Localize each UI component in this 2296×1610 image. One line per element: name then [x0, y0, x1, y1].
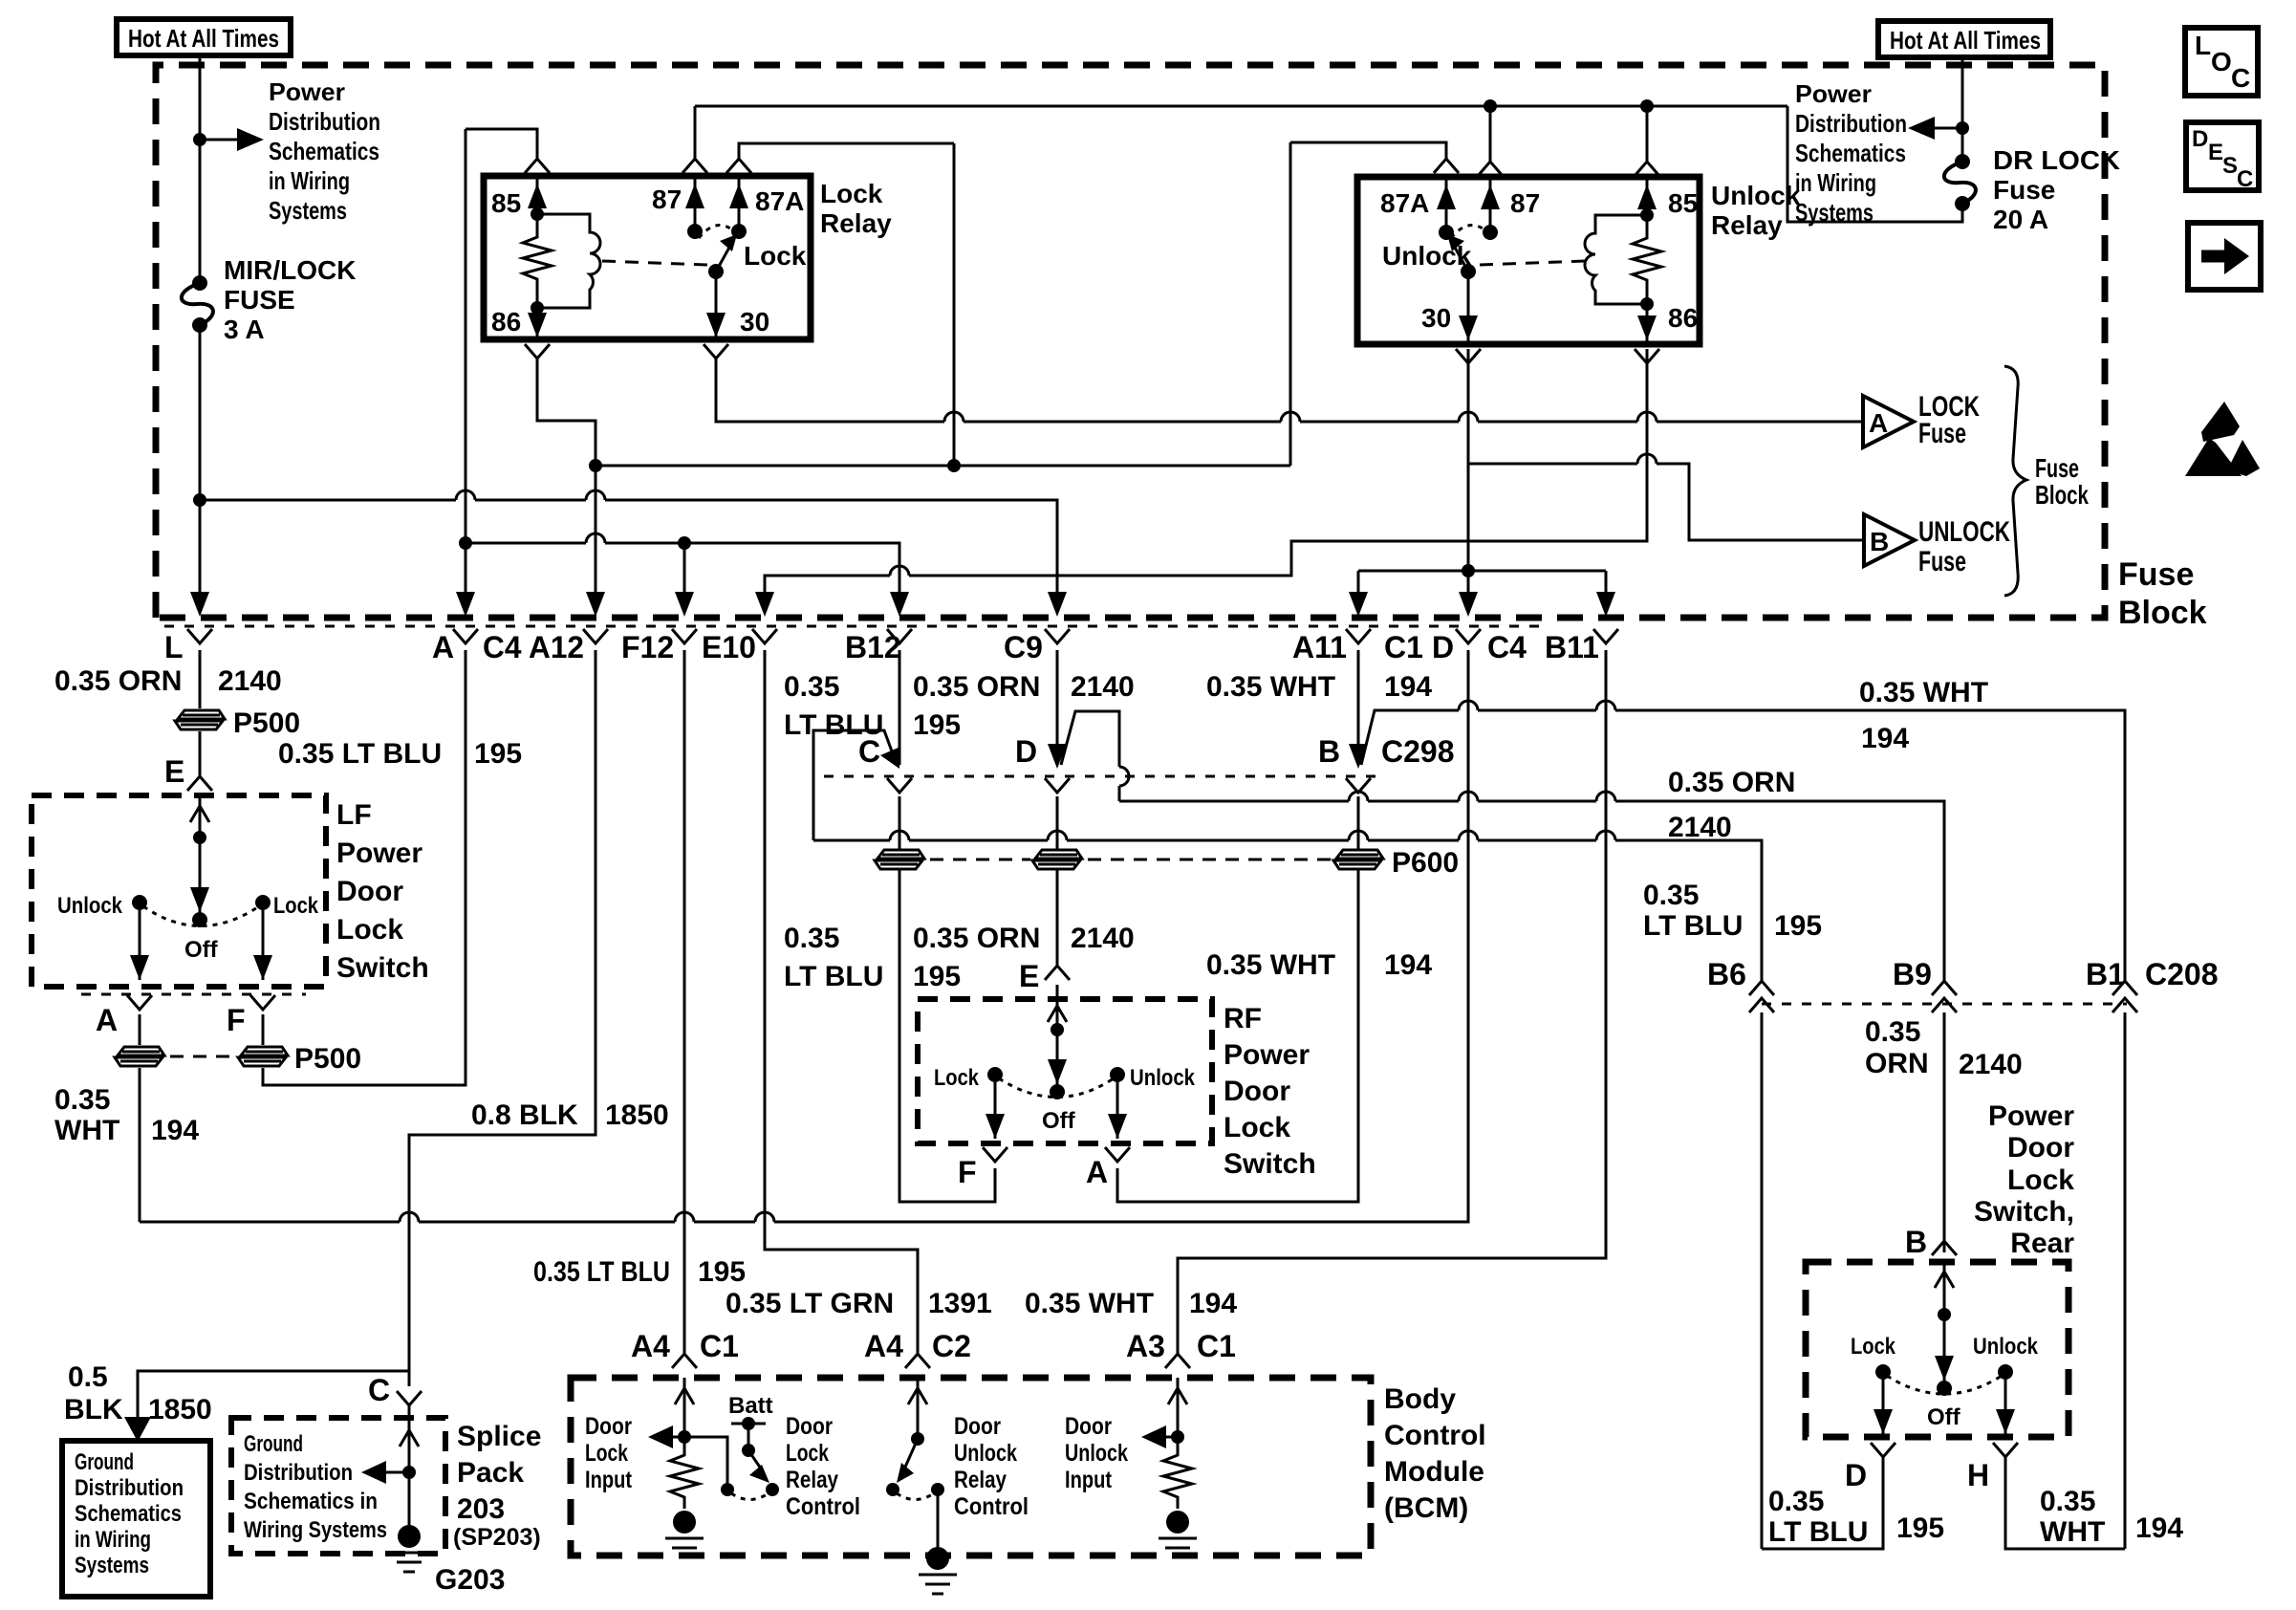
- wire: B into rear switch common: [1943, 1262, 1946, 1381]
- pin 86 lead (unlock): [1646, 304, 1649, 344]
- connector B1 chevrons: [2112, 981, 2137, 995]
- connector H chevron (rear): [1993, 1443, 2018, 1457]
- wire: MIR/LOCK fuse to connector L: [199, 325, 202, 602]
- fuse output triangle B (UNLOCK Fuse): [1864, 514, 1915, 566]
- wire: 87A tie bus y487: [596, 465, 1290, 468]
- wire: unlock control contact to ground: [937, 1490, 940, 1554]
- svg-text:H: H: [1967, 1458, 1989, 1492]
- wire: A4 C2 into BCM: [917, 1378, 920, 1439]
- svg-text:0.35 ORN: 0.35 ORN: [913, 671, 1040, 703]
- wire: ORN 2140 bus y523 fuse to C9 (hops 487,623): [200, 499, 456, 502]
- svg-text:Switch,: Switch,: [1974, 1196, 2074, 1228]
- svg-text:Door: Door: [336, 876, 403, 907]
- svg-text:0.35: 0.35: [784, 923, 839, 954]
- entry arrow (rear B): [1935, 1272, 1954, 1288]
- wire: unlock 87A over to riser 1350: [1290, 142, 1446, 159]
- svg-text:Relay: Relay: [1711, 210, 1783, 240]
- connector pin at x=623: [583, 629, 608, 643]
- unlock contact (LF): [132, 895, 147, 910]
- svg-text:195: 195: [1774, 910, 1822, 942]
- svg-text:C: C: [2237, 166, 2253, 192]
- svg-text:A11: A11: [1292, 630, 1347, 664]
- wire: A4 C1 into BCM: [683, 1378, 686, 1450]
- wire: B1 down to rear pin H run: [2124, 1012, 2127, 1549]
- svg-text:Control: Control: [786, 1493, 860, 1520]
- connector chevron A4 C2: [905, 1354, 930, 1368]
- connector B chevron (rear): [1932, 1241, 1957, 1255]
- svg-text:85: 85: [1668, 188, 1698, 218]
- svg-text:F: F: [958, 1155, 977, 1189]
- svg-text:Power: Power: [336, 838, 422, 869]
- contact 87A (unlock): [1439, 225, 1454, 240]
- svg-text:in Wiring: in Wiring: [1795, 168, 1876, 197]
- power label box: Hot At All Times (left): [117, 19, 291, 55]
- wire: unlock 30 down to 194 bus: [1467, 349, 1470, 571]
- lock contact (rear): [1875, 1364, 1891, 1380]
- svg-text:Power: Power: [1224, 1039, 1310, 1071]
- svg-text:O: O: [2211, 47, 2232, 76]
- svg-text:87A: 87A: [1380, 188, 1429, 218]
- wire: hot bus y111 to relay pins 87/85: [695, 105, 1787, 108]
- wire: C4 A12 ground lead to splice drop: [409, 650, 596, 1386]
- sidebar LOC box: [2185, 28, 2258, 96]
- connector B6 chevrons: [1749, 981, 1774, 995]
- svg-text:B1: B1: [2086, 957, 2125, 991]
- svg-text:(SP203): (SP203): [453, 1524, 541, 1551]
- wire: battery feed to DR LOCK fuse: [1961, 57, 1964, 160]
- wire: 195 down left side to RF pin F: [899, 869, 995, 1202]
- svg-text:F12: F12: [621, 630, 674, 664]
- contact 87 (lock): [687, 224, 703, 239]
- svg-text:C: C: [368, 1373, 390, 1407]
- svg-text:B: B: [1905, 1225, 1927, 1259]
- switch pivot (RF): [1050, 1084, 1065, 1099]
- svg-text:Power: Power: [1988, 1100, 2074, 1132]
- relay: Unlock Relay box: [1357, 177, 1700, 344]
- lock relay pin 87A entry chevron: [726, 159, 751, 173]
- svg-text:Door: Door: [954, 1413, 1001, 1440]
- arrow into ground distribution schematics: [124, 1417, 151, 1442]
- wire: lock input to relay control contact: [684, 1437, 727, 1483]
- battery feed bar: [731, 1423, 766, 1425]
- svg-text:UNLOCK: UNLOCK: [1918, 516, 2010, 548]
- wire: C9 down to C298 D: [1056, 650, 1059, 765]
- svg-text:Switch: Switch: [1224, 1148, 1316, 1180]
- svg-text:Lock: Lock: [273, 893, 319, 919]
- svg-text:0.35 WHT: 0.35 WHT: [1025, 1288, 1154, 1319]
- wire: A riser (85 feed / LT BLU): [465, 129, 467, 602]
- svg-text:30: 30: [740, 307, 769, 337]
- fuse block brace: [2004, 366, 2026, 596]
- wire: unlock 30 branch to UNLOCK fuse: [1468, 463, 1637, 466]
- wire: battery feed to MIR/LOCK fuse: [199, 55, 202, 281]
- svg-text:D: D: [1845, 1458, 1867, 1492]
- svg-text:Rear: Rear: [2010, 1228, 2074, 1259]
- svg-text:A: A: [96, 1003, 118, 1037]
- connector E chevron (RF): [1045, 966, 1070, 980]
- connector D chevron (rear): [1871, 1443, 1895, 1457]
- travel arc (RF): [999, 1078, 1114, 1098]
- svg-text:1850: 1850: [605, 1099, 669, 1131]
- connector pin at x=1680: [1593, 629, 1618, 643]
- wire: arrow to power distribution: [200, 139, 239, 141]
- svg-text:194: 194: [2135, 1512, 2183, 1544]
- pin 30 lead (unlock): [1467, 272, 1470, 344]
- lock relay pin 86 exit chevron: [525, 344, 550, 359]
- connector pin at x=941: [887, 629, 912, 643]
- wire: WHT 194 distribution bus y597: [1358, 570, 1606, 573]
- junction: riser 998 on tie bus: [947, 459, 961, 472]
- switch pivot (unlock relay): [1461, 264, 1476, 279]
- svg-text:Off: Off: [184, 937, 219, 963]
- unlock relay pin 85 entry chevron: [1635, 162, 1659, 176]
- wire: F12 down to BCM A4 C1: [683, 650, 686, 1354]
- svg-text:Hot At All Times: Hot At All Times: [128, 24, 279, 53]
- switch blade (lock relay): [716, 246, 730, 272]
- svg-text:A3: A3: [1126, 1329, 1165, 1363]
- svg-text:LT BLU: LT BLU: [784, 961, 883, 992]
- dashed tie P600 (right): [1088, 859, 1332, 861]
- lock relay pin 85 entry chevron: [525, 159, 550, 173]
- junction: Batt: [742, 1417, 755, 1430]
- svg-text:E: E: [1019, 959, 1039, 993]
- svg-text:0.35 WHT: 0.35 WHT: [1859, 677, 1988, 708]
- wire: C298 B to P600: [1357, 796, 1360, 851]
- lock relay pin 30 exit chevron: [704, 344, 728, 359]
- svg-text:Door: Door: [1224, 1076, 1290, 1107]
- svg-text:Lock: Lock: [1224, 1112, 1290, 1143]
- svg-text:P600: P600: [1392, 847, 1459, 879]
- entry arrow (LF E): [190, 806, 209, 822]
- wire: arrow to ground distribution text: [384, 1471, 409, 1474]
- svg-text:Module: Module: [1384, 1456, 1484, 1488]
- svg-text:87: 87: [652, 185, 682, 214]
- svg-text:P500: P500: [294, 1043, 361, 1075]
- svg-text:C2: C2: [932, 1329, 971, 1363]
- wire: C298 D to P600: [1056, 796, 1059, 851]
- left contact (unlock relay control): [886, 1483, 899, 1496]
- coil (lock relay): [537, 214, 600, 308]
- switch pivot (LF): [192, 912, 207, 927]
- wire: hot bus drop to unlock relay 87: [1489, 106, 1492, 162]
- svg-text:194: 194: [151, 1115, 199, 1146]
- svg-text:C: C: [858, 734, 880, 769]
- wire: LT BLU 195 bus y878 to B6 (hops 941,1106,1421,1536,1680): [813, 839, 890, 842]
- svg-text:LT BLU: LT BLU: [1643, 910, 1743, 942]
- svg-text:0.35 WHT: 0.35 WHT: [1206, 671, 1335, 703]
- wire: door unlock input arrow: [1164, 1436, 1178, 1439]
- svg-text:Door: Door: [786, 1413, 833, 1440]
- splice pack dashed box: [231, 1418, 445, 1554]
- connector chevron A3 C1: [1165, 1354, 1190, 1368]
- inline connector P500 (A wire): [115, 1047, 164, 1066]
- svg-text:Lock: Lock: [934, 1065, 980, 1091]
- svg-text:195: 195: [698, 1256, 746, 1288]
- svg-text:C208: C208: [2145, 957, 2219, 991]
- entry arrow (A3 C1): [1168, 1388, 1187, 1404]
- svg-text:1850: 1850: [148, 1394, 212, 1425]
- svg-text:Distribution: Distribution: [75, 1475, 184, 1501]
- svg-text:L: L: [2195, 31, 2211, 60]
- wire: E into RF switch common: [1056, 985, 1059, 1084]
- ground (door lock input): [665, 1511, 704, 1557]
- wire: drop to C1 D: [1467, 571, 1470, 602]
- svg-text:Unlock: Unlock: [1130, 1065, 1196, 1091]
- contact 87 (unlock): [1483, 225, 1498, 240]
- ground (unlock relay control): [919, 1547, 957, 1594]
- wire: rear lock contact to pin D: [1882, 1380, 1885, 1434]
- entry arrow (RF E): [1048, 1006, 1067, 1022]
- LF connector dashed line: [81, 993, 306, 996]
- svg-text:A: A: [1086, 1155, 1108, 1189]
- svg-text:Power: Power: [1795, 79, 1872, 108]
- wire: LF unlock contact to pin A: [139, 910, 141, 980]
- svg-text:E: E: [164, 754, 184, 789]
- wire: WHT 194 jog from C298 B, bus y743 to B1 (hops 1536,1680): [1361, 710, 1459, 765]
- svg-text:194: 194: [1861, 723, 1909, 754]
- svg-text:Schematics: Schematics: [75, 1501, 182, 1527]
- svg-text:Power: Power: [269, 77, 345, 106]
- svg-text:Distribution: Distribution: [269, 107, 380, 136]
- connector pin at x=1536: [1456, 629, 1481, 643]
- wire: hot bus drop to unlock relay 85: [1646, 106, 1649, 162]
- svg-text:Ground: Ground: [75, 1449, 134, 1475]
- svg-text:LT BLU: LT BLU: [1768, 1516, 1868, 1548]
- connector B9 chevrons: [1932, 981, 1957, 995]
- svg-text:Lock: Lock: [1851, 1334, 1896, 1360]
- svg-text:B12: B12: [845, 630, 901, 664]
- svg-text:Off: Off: [1042, 1108, 1076, 1134]
- svg-text:in Wiring: in Wiring: [269, 166, 350, 195]
- svg-text:DR LOCK: DR LOCK: [1993, 145, 2120, 175]
- wire: Batt to switch pivot: [747, 1424, 750, 1450]
- svg-text:Switch: Switch: [336, 952, 429, 984]
- svg-text:FUSE: FUSE: [224, 285, 295, 315]
- svg-text:86: 86: [491, 307, 521, 337]
- svg-text:E: E: [2208, 140, 2223, 165]
- junction: power distribution tap (right): [1956, 121, 1969, 135]
- wire: 194 net B11 to BCM A3 C1: [1178, 650, 1606, 1354]
- svg-text:Unlock: Unlock: [1382, 241, 1472, 271]
- svg-text:Relay: Relay: [786, 1467, 838, 1493]
- connector pin at x=716: [672, 629, 697, 643]
- wire: B6 down to rear pin D run: [1761, 1012, 1764, 1549]
- svg-text:Control: Control: [954, 1493, 1029, 1520]
- body control module (BCM) box: [571, 1378, 1371, 1556]
- connector E chevron (LF): [187, 776, 212, 791]
- inline connector P600 (195 wire): [875, 850, 924, 869]
- resistor (lock relay): [523, 214, 552, 308]
- sidebar arrow box: [2188, 223, 2261, 290]
- svg-text:D: D: [1015, 734, 1037, 769]
- wire: RF lock contact to pin F: [994, 1082, 997, 1139]
- svg-text:0.35: 0.35: [784, 671, 839, 703]
- svg-text:3 A: 3 A: [224, 315, 265, 344]
- wire: unlock 87A riser 1350: [1289, 142, 1292, 466]
- junction: unlock 85 tap: [1640, 99, 1654, 113]
- unlock contact (RF): [1110, 1067, 1125, 1082]
- svg-text:B9: B9: [1893, 957, 1932, 991]
- junction: door lock input tap: [678, 1430, 691, 1444]
- svg-text:B: B: [1318, 734, 1340, 769]
- wire: A to P500: [139, 1014, 141, 1045]
- wire: drop to C4 B11: [1605, 571, 1608, 602]
- svg-text:203: 203: [457, 1493, 505, 1525]
- svg-text:D: D: [2192, 126, 2208, 152]
- left contact (lock relay control): [721, 1483, 734, 1496]
- svg-text:C298: C298: [1381, 734, 1455, 769]
- wire: rear pin D to B6: [1762, 1457, 1883, 1549]
- wire: ORN jog lower: [1118, 786, 1121, 801]
- RF power door lock switch box: [918, 999, 1212, 1143]
- svg-text:0.35: 0.35: [1643, 880, 1699, 911]
- svg-text:P500: P500: [233, 707, 300, 739]
- wire: lock 87A over to riser 998: [739, 143, 954, 159]
- wire: 194 trunk from LF to C1 D riser (hops 428,716,800): [140, 1221, 400, 1224]
- switch pivot (lock relay control): [742, 1444, 755, 1457]
- wire: P500 to LF pin E: [199, 731, 202, 776]
- junction: unlock 87 tap: [1484, 99, 1497, 113]
- svg-text:Door: Door: [585, 1413, 632, 1440]
- svg-text:Systems: Systems: [75, 1553, 149, 1578]
- svg-text:LF: LF: [336, 799, 372, 831]
- entry arrow (splice C): [400, 1430, 419, 1447]
- svg-text:Lock: Lock: [2007, 1164, 2074, 1196]
- travel arc (rear): [1887, 1376, 2002, 1394]
- resistor (door lock input): [670, 1450, 699, 1509]
- C208 connector dashed line: [1762, 1003, 2127, 1006]
- entry arrow (A4 C1): [675, 1388, 694, 1404]
- relay: Lock Relay box: [484, 176, 811, 339]
- wire: B12 down to C298 C: [899, 650, 901, 765]
- junction: F12 tap: [678, 536, 691, 550]
- wire: LT BLU 195 bus y568 to F12 and B12 (hops 623): [466, 542, 586, 545]
- pin 85 lead (unlock): [1646, 177, 1649, 215]
- svg-text:Lock: Lock: [820, 179, 883, 208]
- svg-text:86: 86: [1668, 303, 1698, 333]
- connector A (RF): [1105, 1147, 1130, 1162]
- fuse output triangle A (LOCK Fuse): [1863, 396, 1914, 447]
- connector pin at x=800: [752, 629, 777, 643]
- mechanical link (unlock relay): [1480, 261, 1585, 265]
- svg-text:Fuse: Fuse: [1918, 418, 1966, 449]
- wire: A riser over to pin 85: [466, 129, 537, 160]
- svg-text:Input: Input: [585, 1467, 633, 1493]
- wire: door lock input arrow: [671, 1436, 684, 1439]
- svg-text:Control: Control: [1384, 1420, 1486, 1451]
- wire: A3 C1 into BCM: [1177, 1378, 1180, 1450]
- rear power door lock switch box: [1806, 1262, 2069, 1437]
- travel arc (unlock relay control): [897, 1493, 934, 1500]
- connector A (LF): [127, 995, 152, 1010]
- svg-text:Lock: Lock: [336, 914, 403, 946]
- unlock relay pin 87 entry chevron: [1478, 162, 1503, 176]
- junction: ORN 2140 bus tap: [193, 493, 206, 507]
- svg-text:C: C: [2231, 63, 2250, 93]
- svg-text:0.35 LT GRN: 0.35 LT GRN: [726, 1288, 894, 1319]
- wire: F to P500: [262, 1014, 265, 1045]
- wire: L to P500: [199, 650, 202, 708]
- switch pivot (unlock relay control): [911, 1432, 924, 1446]
- junction: splice tap: [402, 1466, 416, 1479]
- svg-text:Body: Body: [1384, 1383, 1456, 1415]
- svg-text:1391: 1391: [928, 1288, 992, 1319]
- svg-text:A: A: [1869, 408, 1888, 438]
- wire: lock 86 jog down to C4 A12: [537, 359, 596, 602]
- contact travel arc (unlock relay): [1451, 226, 1485, 238]
- svg-text:Lock: Lock: [786, 1440, 829, 1467]
- svg-text:194: 194: [1384, 671, 1432, 703]
- svg-text:A4: A4: [631, 1329, 670, 1363]
- svg-text:Fuse: Fuse: [1918, 546, 1966, 577]
- pin 87A lead: [738, 176, 741, 231]
- svg-text:Fuse: Fuse: [2118, 556, 2194, 593]
- wire: LT GRN 1391 net E10 riser to unlock 86 (hops 941): [765, 576, 890, 602]
- svg-text:C1: C1: [1197, 1329, 1236, 1363]
- svg-text:0.35 ORN: 0.35 ORN: [913, 923, 1040, 954]
- svg-text:C4: C4: [1487, 630, 1527, 664]
- svg-text:G203: G203: [435, 1564, 505, 1596]
- connector F (LF): [250, 995, 275, 1010]
- svg-text:0.35: 0.35: [2040, 1486, 2095, 1517]
- ground (door unlock input): [1159, 1511, 1197, 1557]
- svg-text:ORN: ORN: [1865, 1048, 1929, 1079]
- svg-text:F: F: [227, 1003, 246, 1037]
- svg-text:Unlock: Unlock: [1711, 181, 1801, 210]
- wire: P500 F up to fuse block A: [263, 650, 466, 1085]
- svg-text:0.5: 0.5: [68, 1361, 108, 1393]
- svg-text:Distribution: Distribution: [244, 1460, 353, 1486]
- coil (unlock relay): [1585, 215, 1647, 304]
- svg-text:C1: C1: [1384, 630, 1423, 664]
- junction: lock 86 / 87A tie bus: [589, 459, 602, 472]
- svg-text:B11: B11: [1545, 630, 1599, 664]
- svg-text:2140: 2140: [1959, 1049, 2023, 1080]
- connector C chevron (splice): [397, 1391, 422, 1405]
- right contact (unlock relay control): [931, 1483, 944, 1496]
- wire: LT BLU 195 jog into C298 C: [813, 730, 895, 840]
- svg-text:C9: C9: [1004, 630, 1043, 664]
- svg-text:194: 194: [1384, 949, 1432, 981]
- svg-text:(BCM): (BCM): [1384, 1492, 1468, 1524]
- wire: C into splice pack: [408, 1405, 411, 1526]
- switch blade (unlock relay): [1454, 246, 1468, 272]
- fuse DR LOCK 20A: [1955, 154, 1970, 169]
- connector F (RF): [983, 1147, 1007, 1162]
- svg-text:Off: Off: [1927, 1404, 1961, 1430]
- wire: E into LF switch common: [199, 795, 202, 912]
- svg-text:Door: Door: [2007, 1132, 2074, 1164]
- svg-text:Splice: Splice: [457, 1421, 541, 1452]
- lock contact (LF): [255, 895, 271, 910]
- svg-text:Fuse: Fuse: [2035, 453, 2079, 483]
- wire: ground lead to ground distribution pointer: [138, 1371, 409, 1419]
- svg-text:Distribution: Distribution: [1795, 109, 1907, 138]
- connector row dashed line: [164, 625, 1549, 628]
- svg-text:0.35 WHT: 0.35 WHT: [1206, 949, 1335, 981]
- svg-text:C1: C1: [700, 1329, 739, 1363]
- svg-text:WHT: WHT: [2040, 1516, 2105, 1548]
- lock contact (RF): [987, 1067, 1003, 1082]
- svg-text:Unlock: Unlock: [57, 893, 123, 919]
- pin 87 lead (unlock): [1489, 177, 1492, 232]
- wire: rear unlock contact to pin H: [2004, 1380, 2007, 1434]
- svg-text:C4 A12: C4 A12: [483, 630, 584, 664]
- svg-text:2140: 2140: [1071, 671, 1135, 703]
- svg-text:Systems: Systems: [269, 196, 347, 225]
- pin 30 lead: [715, 272, 718, 339]
- svg-text:L: L: [164, 630, 184, 664]
